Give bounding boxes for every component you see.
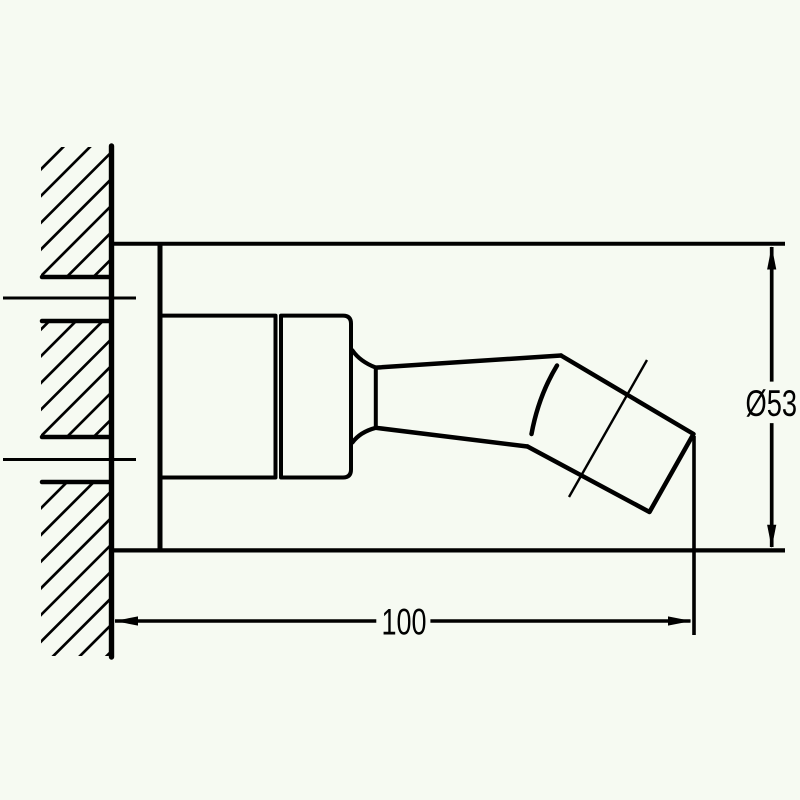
holder axis cross line xyxy=(569,360,647,497)
flange bottom edge / extension line for diameter dimension xyxy=(112,548,785,552)
wall hatching block 2 xyxy=(25,235,135,505)
diameter dimension arrow up xyxy=(767,246,776,269)
wall face line xyxy=(109,146,114,657)
cone taper lower line xyxy=(353,428,376,443)
length dimension extension line xyxy=(692,436,696,635)
arm upper outline xyxy=(376,356,561,368)
body cylinder xyxy=(161,316,276,478)
svg-text:100: 100 xyxy=(382,602,427,643)
wall hole 1 upper edge xyxy=(42,275,111,280)
neck line xyxy=(374,368,378,428)
svg-text:Ø53: Ø53 xyxy=(746,383,798,424)
cone taper upper line xyxy=(353,351,376,368)
length dimension line right segment xyxy=(430,619,690,622)
diameter dimension line lower segment xyxy=(770,423,774,547)
wall hole 2 centerline xyxy=(3,458,136,461)
length dimension arrow left xyxy=(115,616,139,625)
diameter dimension arrow down xyxy=(767,525,776,548)
flange right edge xyxy=(158,244,163,551)
holder cup outline xyxy=(528,356,694,513)
wall hole 1 lower edge xyxy=(42,319,111,324)
diameter dimension line upper segment xyxy=(770,247,774,382)
locking ring xyxy=(281,316,351,478)
wall hatching block 1 xyxy=(25,75,135,345)
wall hole 2 lower edge xyxy=(42,480,111,485)
wall hole 1 centerline xyxy=(3,297,136,300)
wall hole 2 upper edge xyxy=(42,435,111,440)
wall hatching block 3 xyxy=(25,387,135,737)
length dimension line left segment xyxy=(115,619,376,622)
arm lower outline xyxy=(376,428,528,447)
flange top edge / extension line for diameter dimension xyxy=(112,242,785,246)
holder cup dome arc xyxy=(532,366,558,435)
length dimension arrow right xyxy=(668,616,692,625)
